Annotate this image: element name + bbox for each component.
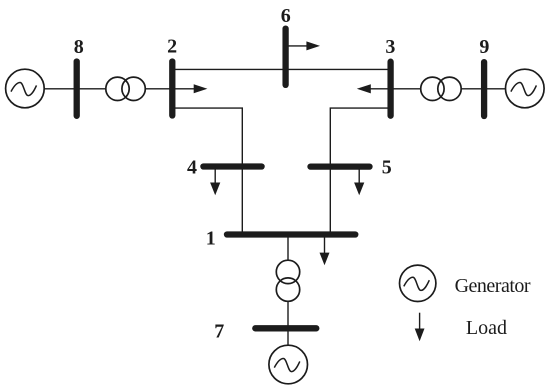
load arrowhead at bus 3 [357,84,371,93]
transformer T8-2 [106,77,146,100]
wire bus 3 bottom to corner down to bus 1 [330,108,390,234]
wire bus 7 to G7 [287,328,289,345]
wire transformer to bus 9 [461,88,484,90]
transformer T3-9 [421,77,462,100]
generator G9 [506,69,545,108]
svg-text:6: 6 [281,5,291,27]
wire load tail at bus 5 [358,167,360,184]
svg-text:8: 8 [74,36,84,58]
wire transformer T1-7 to bus 7 [287,301,289,328]
wire legend load arrow tail [419,313,421,330]
bus 4 [203,163,261,169]
wire transformer to bus 2 [145,88,172,90]
svg-text:4: 4 [187,157,197,179]
legend load arrowhead [415,329,425,342]
wire bus 1 to transformer T1-7 [287,234,289,260]
wire bus 2 to bus 3 top line through bus 6 [172,68,390,70]
svg-text:1: 1 [206,227,216,249]
svg-text:5: 5 [382,157,392,179]
legend generator symbol [400,265,436,301]
svg-text:9: 9 [479,36,489,58]
wire load tail at bus 2 [172,88,195,90]
load arrowhead at bus 5 [354,183,364,196]
bus 6 [282,29,288,85]
wire bus 3 to transformer with load tail [370,88,422,90]
svg-text:7: 7 [214,320,224,342]
bus 1 [227,231,355,237]
svg-text:Load: Load [466,317,507,339]
generator G8 [6,69,45,108]
load arrowhead at bus 4 [210,183,220,196]
svg-text:2: 2 [167,35,177,57]
svg-text:Generator: Generator [455,275,531,297]
svg-text:3: 3 [385,36,395,58]
transformer T1-7 [276,260,299,301]
wire load tail at bus 1 [324,234,326,254]
load arrowhead at bus 1 [320,253,330,266]
bus 7 [255,325,316,331]
wire load tail at bus 4 [214,167,216,184]
bus 5 [311,163,370,169]
wire bus 9 to G9 [484,88,506,90]
bus 3 [387,62,393,116]
bus 8 [74,62,80,116]
bus 2 [169,62,175,116]
wire load tail at bus 6 [286,45,308,47]
wire G8 to bus 8 to transformer [44,88,106,90]
generator G7 [269,345,308,384]
load arrowhead at bus 6 [306,41,320,50]
load arrowhead at bus 2 [194,84,208,93]
wire bus 2 bottom to corner [172,108,242,234]
bus 9 [481,62,487,116]
